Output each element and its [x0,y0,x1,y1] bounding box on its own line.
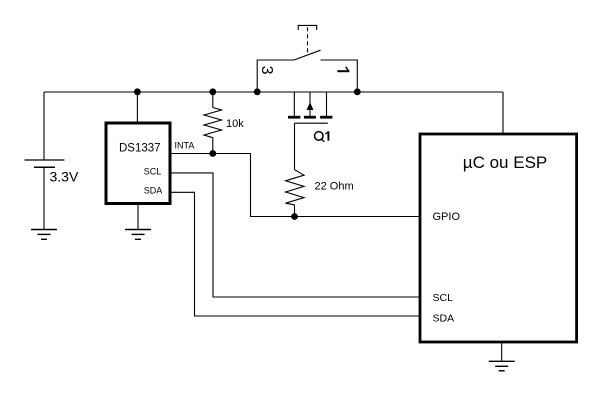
wire INTA net [170,154,420,217]
node VCC to DS1337 [134,88,141,95]
ground battery [31,230,57,240]
svg-text:22 Ohm: 22 Ohm [315,180,354,192]
ground uC [489,361,515,371]
wire Q1 drain stub [293,92,295,116]
node switch pin1 junction [354,88,361,95]
wire rail drop to uC top [502,92,504,134]
switch SW1 actuator dashed stem [307,27,309,53]
wire 10k top lead [212,92,214,108]
wire Q1 gate lead [294,123,296,170]
battery B1 3.3V [25,160,65,167]
node switch pin3 junction [254,88,261,95]
svg-text:SCL: SCL [144,166,162,176]
wire switch pin 1 lead [321,60,358,92]
ground DS1337 [125,230,151,240]
wire 22 Ohm bottom lead [294,205,296,217]
svg-text:10k: 10k [226,118,244,130]
wire SCL net [170,173,420,297]
svg-text:SDA: SDA [433,313,455,325]
wire DS1337 VCC lead [136,92,138,123]
svg-text:SCL: SCL [433,292,454,304]
transistor Q1 gate plate [295,122,328,124]
wire Q1 body stub [309,92,311,116]
IC U1 uC ou ESP box [420,134,577,342]
wire 10k bottom lead [212,138,214,154]
node GPIO junction [291,213,298,220]
pin number 1 [337,67,349,71]
Q1 body arrow [307,102,314,110]
label Q1 [315,131,329,141]
wire battery negative lead [43,167,45,229]
wire Q1 source stub [326,92,328,116]
node rail to 10k [209,88,216,95]
node INTA junction [209,150,216,157]
wire DS1337 ground lead [137,204,139,230]
wire switch pin 3 lead [257,60,294,92]
svg-text:GPIO: GPIO [433,211,461,223]
switch SW1 actuator bracket [298,25,317,30]
svg-text:SDA: SDA [144,186,163,196]
wire top power rail [44,91,503,93]
wire SDA net [170,192,420,316]
IC U2 DS1337 box [106,123,170,204]
resistor R2 22 Ohm [286,170,305,205]
wire uC ground lead [501,342,503,361]
switch SW1 lever [294,50,321,60]
svg-text:3: 3 [258,66,275,75]
svg-text:DS1337: DS1337 [119,143,161,155]
wire battery positive lead [43,92,45,160]
svg-text:µC ou ESP: µC ou ESP [463,153,547,172]
transistor Q1 channel bars [288,116,332,119]
svg-text:3.3V: 3.3V [50,168,79,184]
resistor R1 10k [204,108,222,138]
svg-text:INTA: INTA [175,140,195,150]
